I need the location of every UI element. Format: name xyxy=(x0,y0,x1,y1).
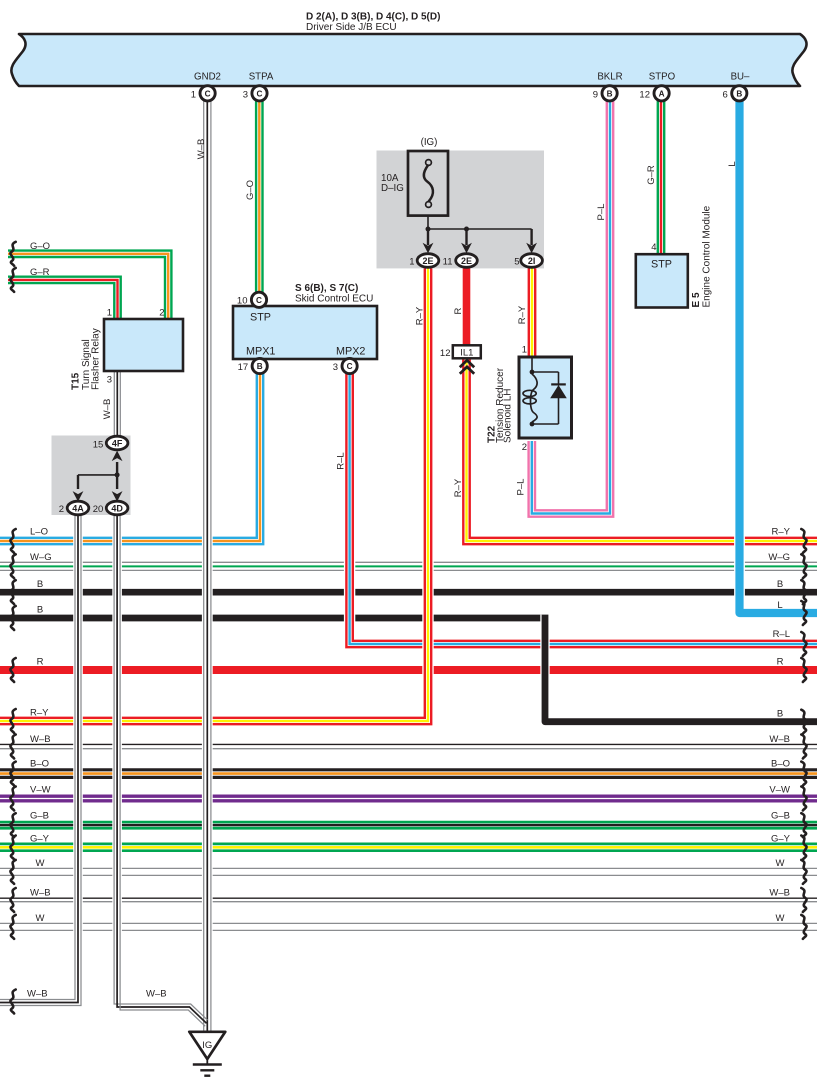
svg-text:STPO: STPO xyxy=(649,72,676,83)
svg-text:G–Y: G–Y xyxy=(771,834,791,845)
wire G-O from left edge to relay pin2 xyxy=(8,251,171,319)
svg-text:G–O: G–O xyxy=(30,241,50,252)
node fuse junction xyxy=(426,227,431,232)
svg-text:6: 6 xyxy=(723,89,728,100)
wire R-Y from IL1 shield to right edge xyxy=(467,358,817,541)
svg-text:2E: 2E xyxy=(461,256,472,266)
wire B band upper xyxy=(0,589,817,596)
svg-text:C: C xyxy=(205,90,211,99)
pin 17 skid xyxy=(252,358,267,373)
svg-text:MPX2: MPX2 xyxy=(336,346,365,358)
svg-text:Skid Control ECU: Skid Control ECU xyxy=(295,294,373,305)
svg-text:20: 20 xyxy=(93,504,104,515)
svg-text:17: 17 xyxy=(238,362,249,373)
wire R from connector 2E pin11 to IL1 xyxy=(463,268,471,346)
svg-text:B: B xyxy=(37,605,43,616)
svg-text:R: R xyxy=(37,656,44,667)
svg-text:L–O: L–O xyxy=(30,527,48,538)
ground IG triangle xyxy=(189,1032,225,1059)
pin 10 skid xyxy=(251,292,266,307)
svg-text:IL1: IL1 xyxy=(460,347,473,358)
svg-text:B: B xyxy=(736,90,742,99)
svg-text:BU–: BU– xyxy=(731,72,750,83)
node junction dot xyxy=(115,472,120,477)
junction IL1 box xyxy=(453,345,481,358)
svg-text:G–B: G–B xyxy=(30,811,49,822)
fuse output wire xyxy=(427,216,429,229)
connector 2I pin5 xyxy=(521,254,543,268)
arrow into connector 4A xyxy=(77,475,79,489)
svg-text:W–B: W–B xyxy=(196,139,207,160)
svg-text:1: 1 xyxy=(107,308,112,319)
svg-text:4D: 4D xyxy=(111,503,123,513)
solenoid internal top wire xyxy=(531,359,533,371)
svg-text:W: W xyxy=(36,913,45,924)
node solenoid bottom xyxy=(530,422,535,427)
svg-text:G–Y: G–Y xyxy=(30,834,50,845)
svg-text:A: A xyxy=(659,90,665,99)
relay T15 Turn Signal Flasher Relay box xyxy=(104,319,183,371)
svg-text:Flasher Relay: Flasher Relay xyxy=(91,328,102,390)
svg-text:D 2(A), D 3(B), D 4(C), D 5(D): D 2(A), D 3(B), D 4(C), D 5(D) xyxy=(306,12,440,23)
svg-text:W–B: W–B xyxy=(102,399,113,420)
fuse 10A D-IG xyxy=(408,151,448,216)
svg-text:Engine Control Module: Engine Control Module xyxy=(701,205,712,307)
wire V-W band xyxy=(0,795,817,798)
svg-text:V–W: V–W xyxy=(769,784,790,795)
svg-text:L: L xyxy=(727,161,738,166)
wire B-O band xyxy=(0,768,817,771)
svg-text:1: 1 xyxy=(522,345,527,356)
wire W-B from connector 4D to ground junction xyxy=(117,514,200,1017)
solenoid T22 box xyxy=(519,357,572,438)
wire B elbow to right edge xyxy=(545,615,817,722)
svg-text:5: 5 xyxy=(514,257,519,268)
wire W-B from relay pin3 to connector 4F xyxy=(113,371,115,437)
svg-text:Driver Side J/B ECU: Driver Side J/B ECU xyxy=(306,22,397,33)
wire W-B band 2 xyxy=(0,897,817,899)
diode branch wires xyxy=(532,371,559,373)
wire G-R from left edge to relay pin1 xyxy=(8,277,121,319)
wire R-L from Skid Control ECU MPX2 to right edge xyxy=(350,374,817,645)
wire W-G full width band xyxy=(0,561,817,563)
svg-text:D–IG: D–IG xyxy=(381,183,404,194)
svg-text:R–L: R–L xyxy=(336,452,347,469)
svg-text:R–Y: R–Y xyxy=(517,305,528,324)
wire G-O from J/B STPA to Skid Control ECU pin10 xyxy=(255,100,257,294)
ground hatching xyxy=(206,1059,208,1064)
svg-text:4: 4 xyxy=(651,242,656,253)
svg-text:1: 1 xyxy=(191,89,196,100)
svg-text:4A: 4A xyxy=(72,503,84,513)
connector 2E pin1 xyxy=(417,254,439,268)
svg-text:W–B: W–B xyxy=(769,734,790,745)
svg-text:STPA: STPA xyxy=(249,72,274,83)
svg-text:3: 3 xyxy=(243,89,248,100)
wire L-O from Skid Control ECU MPX1 to left edge xyxy=(0,374,257,538)
svg-text:R–Y: R–Y xyxy=(453,478,464,497)
wire B band lower horizontal part xyxy=(0,615,548,622)
svg-text:2: 2 xyxy=(59,504,64,515)
svg-text:B: B xyxy=(607,90,613,99)
svg-text:W–B: W–B xyxy=(769,888,790,899)
svg-text:2: 2 xyxy=(522,442,527,453)
wire W band 2 xyxy=(0,922,817,924)
svg-text:W–B: W–B xyxy=(30,734,51,745)
svg-text:9: 9 xyxy=(593,89,598,100)
svg-text:V–W: V–W xyxy=(30,784,51,795)
svg-text:3: 3 xyxy=(107,375,112,386)
arrow to 2E pin11 xyxy=(465,229,467,245)
svg-text:S 6(B), S 7(C): S 6(B), S 7(C) xyxy=(295,283,358,294)
coil of solenoid xyxy=(531,374,538,422)
arrow into connector 4F xyxy=(116,462,118,475)
svg-text:Solenoid LH: Solenoid LH xyxy=(503,389,514,443)
svg-text:C: C xyxy=(257,90,263,99)
svg-text:R: R xyxy=(453,307,464,314)
svg-text:MPX1: MPX1 xyxy=(246,346,275,358)
wire P-L from J/B BKLR to solenoid pin2 xyxy=(535,100,607,510)
svg-text:4F: 4F xyxy=(112,438,123,448)
wire G-Y band xyxy=(0,843,817,846)
wire W-B band xyxy=(0,743,817,745)
svg-text:W–G: W–G xyxy=(30,552,52,563)
ECU S6 S7 Skid Control box xyxy=(233,306,377,359)
svg-text:R–L: R–L xyxy=(773,629,790,640)
svg-text:GND2: GND2 xyxy=(194,72,221,83)
wire R-Y from connector 2I pin5 to solenoid pin1 xyxy=(528,268,530,358)
svg-text:G–R: G–R xyxy=(30,267,50,278)
svg-text:STP: STP xyxy=(651,259,672,271)
svg-text:R–Y: R–Y xyxy=(772,527,791,538)
svg-text:T15: T15 xyxy=(71,372,82,390)
svg-text:L: L xyxy=(777,600,782,611)
wire G-R from J/B STPO to ECM pin4 xyxy=(657,100,659,255)
svg-text:R: R xyxy=(777,656,784,667)
arrow into connector 4D xyxy=(116,475,118,489)
svg-text:B: B xyxy=(777,708,783,719)
svg-text:15: 15 xyxy=(93,440,104,451)
svg-text:E 5: E 5 xyxy=(691,292,702,307)
svg-text:1: 1 xyxy=(409,257,414,268)
connector 4A pin2 xyxy=(67,501,89,515)
svg-text:3: 3 xyxy=(333,362,338,373)
svg-text:2: 2 xyxy=(159,308,164,319)
svg-text:W–B: W–B xyxy=(30,888,51,899)
wire W-B from J/B GND2 to ground xyxy=(202,100,213,1031)
svg-text:(IG): (IG) xyxy=(421,137,438,148)
svg-text:B: B xyxy=(257,362,263,371)
shield chevrons below IL1 xyxy=(460,360,474,367)
diode of solenoid xyxy=(550,385,567,398)
svg-text:B: B xyxy=(37,579,43,590)
svg-text:10: 10 xyxy=(237,296,248,307)
svg-text:R–Y: R–Y xyxy=(30,708,49,719)
svg-text:12: 12 xyxy=(639,89,650,100)
svg-text:W–G: W–G xyxy=(768,552,790,563)
svg-text:G–O: G–O xyxy=(245,180,256,200)
junction block J/B internal (fuse box) xyxy=(377,151,545,269)
wire W band xyxy=(0,867,817,869)
svg-text:11: 11 xyxy=(443,257,453,268)
svg-text:STP: STP xyxy=(250,312,271,324)
svg-text:W: W xyxy=(36,858,45,869)
wire R-Y from connector 2E pin1 to left edge xyxy=(0,268,428,721)
svg-text:C: C xyxy=(256,296,262,305)
wire W-B from connector 4A to left edge bottom xyxy=(0,514,78,1003)
connector 4D pin20 xyxy=(106,501,128,515)
svg-text:G–B: G–B xyxy=(771,811,790,822)
arrow to 2E pin1 xyxy=(427,229,429,245)
svg-text:12: 12 xyxy=(440,348,451,359)
svg-text:W–B: W–B xyxy=(27,989,48,1000)
pin 3 skid xyxy=(342,358,357,373)
svg-text:BKLR: BKLR xyxy=(597,72,622,83)
svg-text:B–O: B–O xyxy=(30,759,49,770)
svg-text:B: B xyxy=(777,579,783,590)
svg-text:G–R: G–R xyxy=(646,165,657,185)
svg-text:W: W xyxy=(776,858,785,869)
junction connector gray box xyxy=(52,436,131,516)
arrow to 2I pin5 xyxy=(530,229,532,245)
ECU bar Driver Side J/B xyxy=(11,34,806,86)
svg-text:P–L: P–L xyxy=(516,479,527,496)
wire L from J/B BU- to right edge xyxy=(740,100,817,613)
svg-text:C: C xyxy=(347,362,353,371)
svg-text:2E: 2E xyxy=(422,256,433,266)
svg-text:W: W xyxy=(776,913,785,924)
wire G-B band xyxy=(0,821,817,824)
wire R full width band xyxy=(0,666,817,674)
svg-text:P–L: P–L xyxy=(596,204,607,221)
svg-text:2I: 2I xyxy=(528,256,536,266)
svg-text:W–B: W–B xyxy=(146,989,167,1000)
connector 2E pin11 xyxy=(456,254,478,268)
connector 4F pin15 xyxy=(106,436,128,450)
node solenoid top xyxy=(530,370,535,375)
svg-text:R–Y: R–Y xyxy=(415,306,426,325)
svg-text:IG: IG xyxy=(202,1040,212,1051)
svg-text:B–O: B–O xyxy=(771,759,790,770)
ECM E5 box xyxy=(636,254,688,307)
